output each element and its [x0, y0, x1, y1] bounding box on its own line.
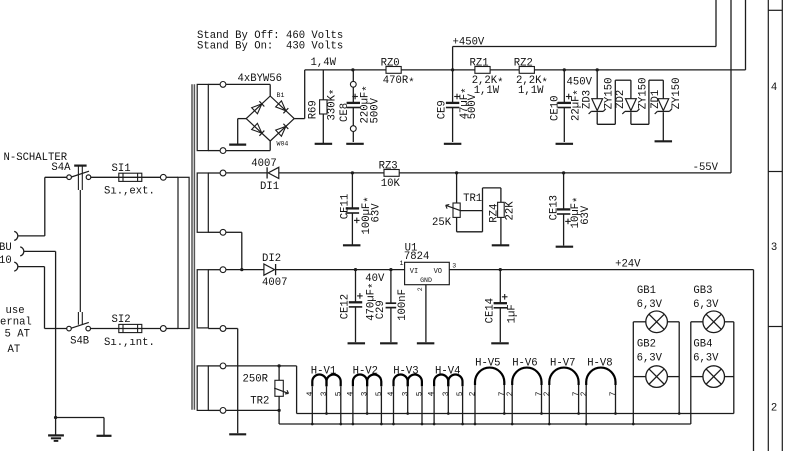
terminal circle secondary tap 5 [208, 267, 226, 273]
ground RZ4 [492, 244, 510, 246]
wire S4B to SI2 [90, 328, 160, 330]
svg-text:ZD1: ZD1 [650, 90, 662, 109]
svg-text:5 AT: 5 AT [5, 328, 30, 340]
svg-text:2: 2 [771, 403, 777, 415]
svg-text:6,3V: 6,3V [693, 353, 719, 365]
label B1 [277, 92, 285, 99]
svg-text:+24V: +24V [615, 258, 641, 270]
wire lamp right column GB3/GB4 [733, 322, 735, 414]
ground R69 [315, 143, 333, 145]
junction CE14 [499, 268, 502, 271]
label 40V [365, 273, 385, 285]
capacitor CE13 [548, 173, 592, 246]
wire to primary box [166, 176, 178, 178]
ground CE11 [343, 244, 361, 246]
junction ZD3 [596, 68, 599, 71]
node -55V top wire [730, 0, 732, 173]
connector terminal mains N [14, 262, 44, 271]
label -55V [693, 162, 719, 174]
ground ZD1 [655, 140, 673, 142]
svg-text:7: 7 [610, 391, 618, 396]
lamp GB3 [691, 285, 734, 333]
transformer primary winding box [178, 177, 189, 328]
svg-text:4: 4 [429, 391, 437, 396]
svg-text:2: 2 [417, 287, 424, 291]
svg-text:1: 1 [400, 260, 404, 267]
ground chassis bar [97, 435, 112, 437]
earth ground symbol [48, 435, 64, 441]
ground bridge [229, 144, 246, 146]
inductor H-V5 [470, 357, 507, 425]
lamp GB4 [691, 339, 734, 388]
svg-text:500V: 500V [467, 93, 479, 119]
transformer core [192, 84, 194, 410]
ground CE10 [556, 143, 574, 145]
zener diode ZD1 [650, 78, 683, 141]
svg-text:ZY150: ZY150 [638, 78, 650, 110]
svg-text:6,3V: 6,3V [637, 299, 663, 311]
svg-text:3: 3 [452, 263, 456, 270]
svg-text:25K: 25K [432, 217, 452, 229]
note: standby voltages [197, 30, 343, 53]
svg-text:ZY150: ZY150 [671, 78, 683, 110]
svg-text:B1: B1 [277, 92, 285, 99]
svg-text:22K: 22K [504, 201, 516, 221]
wire heater bus2 [279, 423, 691, 425]
junction DI2 feed [240, 268, 243, 271]
svg-text:GND: GND [420, 277, 432, 284]
transformer secondary winding box 4 [197, 366, 208, 411]
wire -55V rail [384, 172, 731, 174]
svg-text:7: 7 [499, 391, 507, 396]
zener diode ZD3 [581, 70, 615, 124]
terminal circle secondary tap 7 [208, 363, 226, 369]
svg-text:RZ2: RZ2 [514, 57, 533, 69]
svg-text:5: 5 [335, 391, 343, 396]
diode DI2 [226, 253, 405, 289]
svg-text:ZD2: ZD2 [615, 90, 627, 109]
trimmer TR2 [243, 366, 289, 424]
svg-text:CE13: CE13 [548, 195, 560, 220]
wire lamp left column GB1/GB2 [632, 322, 635, 426]
svg-text:S4A: S4A [51, 162, 71, 174]
svg-text:ZD3: ZD3 [581, 90, 593, 109]
capacitor C29 [375, 270, 409, 343]
wire lamp left column GB3/GB4 [690, 322, 692, 424]
wire tap6 ground drop [226, 329, 238, 434]
connector terminal mains L [14, 231, 45, 240]
svg-text:450V: 450V [567, 77, 593, 89]
svg-text:R69: R69 [307, 100, 319, 119]
svg-text:2: 2 [581, 391, 589, 396]
label +24V [615, 258, 641, 270]
svg-text:4xBYW56: 4xBYW56 [238, 73, 283, 85]
wire ZD3 to ZD2 [597, 80, 631, 124]
wire N terminal to S4B [45, 267, 67, 329]
wire rail up right [745, 0, 747, 70]
wire to primary box bottom [166, 328, 178, 330]
svg-text:63V: 63V [580, 205, 592, 225]
svg-text:BU: BU [0, 242, 12, 254]
svg-text:CE14: CE14 [484, 298, 496, 323]
resistor RZ3 [379, 160, 401, 190]
svg-text:TR2: TR2 [250, 395, 269, 407]
resistor R69 [307, 70, 341, 143]
svg-text:RZ3: RZ3 [379, 160, 398, 172]
ground CE14 [491, 342, 509, 344]
svg-text:63V: 63V [371, 203, 383, 223]
inductor H-V4 [429, 365, 466, 425]
bridge rectifier B1 4xBYW56 [246, 96, 294, 141]
junction CE8 [351, 68, 354, 71]
svg-text:6,3V: 6,3V [637, 353, 663, 365]
svg-text:use: use [6, 305, 25, 317]
capacitor CE10 [549, 70, 584, 142]
wire ZD2 to ZD1 [631, 80, 663, 124]
svg-text:CE11: CE11 [340, 194, 352, 219]
svg-text:CE9: CE9 [437, 100, 449, 119]
junction CE11 [351, 171, 354, 174]
label BU / 10 [0, 242, 12, 267]
junction CE12 [354, 268, 357, 271]
junction PE branch [54, 416, 57, 419]
capacitor CE14 [484, 270, 518, 343]
lamp GB2 [633, 339, 679, 388]
resistor RZ4 [488, 188, 516, 245]
lamp GB1 [633, 285, 679, 333]
terminal circle secondary tap 3 [208, 170, 226, 176]
terminal circle primary bottom [160, 326, 166, 332]
fuse SI2 [104, 314, 155, 349]
ground U1 [417, 342, 435, 344]
wire L terminal to S4A [45, 177, 67, 236]
svg-text:GB4: GB4 [693, 339, 712, 351]
svg-text:TR1: TR1 [463, 193, 482, 205]
terminal circle primary top [160, 174, 166, 180]
inductor H-V2 [347, 365, 384, 425]
resistor RZ1 [470, 57, 504, 97]
terminal circle secondary tap 6 [208, 326, 226, 332]
wire tap1 to bridge top [226, 84, 270, 96]
svg-text:10K: 10K [381, 178, 401, 190]
terminal circle secondary tap 8 [208, 408, 226, 414]
svg-text:3: 3 [443, 391, 451, 396]
svg-text:VI: VI [410, 268, 418, 276]
svg-text:Sı.,ext.: Sı.,ext. [104, 186, 155, 198]
svg-text:2: 2 [544, 391, 552, 396]
border frame right with zone numbers [768, 0, 782, 451]
junction TR1 [455, 171, 458, 174]
ground CE8 [346, 143, 364, 145]
svg-text:GB2: GB2 [637, 339, 656, 351]
wire PE down [55, 251, 57, 435]
svg-text:RZ0: RZ0 [381, 57, 400, 69]
transformer secondary winding box 2 [197, 173, 208, 232]
svg-text:5: 5 [417, 391, 425, 396]
ground transformer center [229, 433, 246, 435]
svg-text:VO: VO [434, 268, 442, 276]
transformer secondary winding box 3 [197, 270, 208, 328]
svg-text:CE12: CE12 [340, 294, 352, 319]
svg-text:2: 2 [507, 391, 515, 396]
connector terminal mains PE [20, 247, 55, 256]
junction C29 [389, 268, 392, 271]
svg-text:Sı.,ınt.: Sı.,ınt. [104, 337, 155, 349]
svg-text:DI1: DI1 [260, 181, 279, 193]
fuse SI1 [104, 163, 155, 197]
svg-text:3: 3 [321, 391, 329, 396]
svg-text:5: 5 [376, 391, 384, 396]
svg-text:4: 4 [307, 391, 315, 396]
capacitor CE8 [339, 70, 382, 142]
wire PE branch to chassis [56, 418, 104, 436]
inductor H-V7 [544, 357, 581, 425]
capacitor CE11 [340, 173, 383, 245]
svg-text:ernal: ernal [0, 317, 32, 329]
label 450V [567, 77, 593, 89]
svg-text:4007: 4007 [251, 158, 276, 170]
label 1,4W [311, 57, 337, 69]
svg-text:GB1: GB1 [637, 285, 656, 297]
junction CE10 [563, 68, 566, 71]
svg-text:C29: C29 [375, 300, 387, 319]
wire +24V rail [449, 270, 753, 451]
wire heater bottom tap [226, 409, 278, 411]
label W04 [277, 141, 289, 148]
terminal circle secondary tap 4 [208, 229, 226, 235]
junction TR2 top [277, 364, 280, 367]
wire U1 gnd [425, 285, 427, 343]
svg-text:GB3: GB3 [693, 285, 712, 297]
svg-text:DI2: DI2 [262, 253, 281, 265]
svg-text:ZY150: ZY150 [604, 78, 616, 110]
svg-text:2: 2 [470, 391, 478, 396]
svg-text:7824: 7824 [404, 251, 429, 263]
svg-text:W04: W04 [277, 141, 289, 148]
mech link S4A-S4B [78, 190, 82, 325]
label 4xBYW56 [238, 73, 283, 85]
resistor RZ2 [514, 57, 548, 97]
svg-text:4007: 4007 [262, 277, 287, 289]
svg-text:10: 10 [0, 255, 12, 267]
inductor H-V6 [507, 357, 544, 425]
transformer secondary winding box 1 [197, 84, 208, 150]
terminal circle secondary tap 2 [208, 148, 226, 154]
svg-text:1,4W: 1,4W [311, 57, 337, 69]
diode DI1 [226, 158, 384, 193]
svg-text:4: 4 [388, 391, 396, 396]
inductor H-V3 [388, 365, 425, 425]
ground CE13 [556, 246, 574, 248]
wire bridge left to ground [238, 119, 247, 144]
ground CE12 [348, 342, 366, 344]
wire tap2 to bridge bottom [226, 141, 270, 151]
trimmer TR1 [432, 173, 482, 229]
switch S4A [51, 162, 90, 190]
svg-text:+450V: +450V [453, 36, 485, 48]
wire tap4 jump to DI2 row [226, 232, 242, 269]
capacitor CE12 [340, 270, 380, 343]
ground C29 [380, 342, 398, 344]
svg-text:100nF: 100nF [397, 289, 409, 321]
label +450V [453, 36, 485, 48]
label fuse note (cut) [0, 305, 32, 356]
svg-text:500V: 500V [370, 97, 382, 123]
svg-text:250R: 250R [243, 374, 269, 386]
junction +450V tap [451, 68, 454, 71]
svg-text:3: 3 [402, 391, 410, 396]
ground CE9 [444, 143, 462, 145]
switch S4B [67, 322, 91, 347]
svg-text:40V: 40V [365, 273, 385, 285]
svg-text:5: 5 [457, 391, 465, 396]
wire heater bus1 [297, 413, 734, 415]
wire lamp right column GB1/GB2 [678, 322, 681, 415]
svg-text:1,1W: 1,1W [518, 85, 544, 97]
label N-SCHALTER [4, 152, 68, 164]
svg-text:RZ4: RZ4 [488, 204, 500, 223]
svg-text:4: 4 [771, 82, 777, 94]
junction TR2 bottom [277, 409, 280, 412]
wire heater top tap [226, 366, 297, 414]
svg-text:1µF: 1µF [506, 304, 518, 323]
junction CE13 [562, 171, 565, 174]
svg-text:7: 7 [536, 391, 544, 396]
terminal circle secondary tap 1 [208, 82, 226, 88]
svg-text:Stand By On: 430 Volts: Stand By On: 430 Volts [197, 41, 343, 53]
capacitor CE9 [437, 70, 479, 142]
wire +450V rail [305, 69, 746, 71]
wire S4A to SI1 [91, 176, 161, 178]
svg-text:-55V: -55V [693, 162, 719, 174]
svg-text:AT: AT [8, 344, 21, 356]
resistor RZ0 [381, 57, 415, 89]
regulator U1 7824 [400, 243, 457, 292]
svg-text:S4B: S4B [70, 336, 89, 348]
inductor H-V1 [307, 365, 344, 425]
svg-text:3: 3 [771, 242, 777, 254]
svg-text:4: 4 [347, 391, 355, 396]
zener diode ZD2 [615, 78, 650, 125]
svg-text:3: 3 [362, 391, 370, 396]
svg-text:CE8: CE8 [339, 103, 351, 122]
svg-text:RZ1: RZ1 [470, 57, 489, 69]
wire bridge right to rail [294, 70, 305, 119]
svg-text:6,3V: 6,3V [693, 299, 719, 311]
wire +450V upper [453, 0, 716, 70]
svg-text:CE10: CE10 [549, 96, 561, 121]
inductor H-V8 [581, 357, 618, 425]
wire TR1 wiper net [457, 188, 501, 232]
